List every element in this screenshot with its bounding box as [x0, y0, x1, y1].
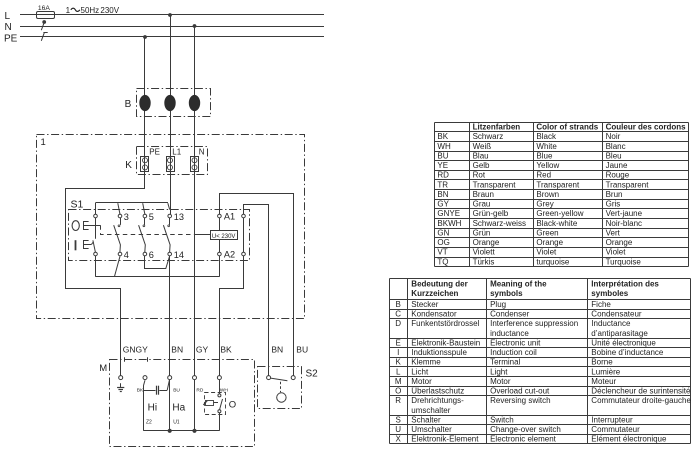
motor terminal (WH / overload)	[217, 376, 221, 380]
svg-text:Inductance: Inductance	[591, 319, 631, 328]
contact 13/14 moving blade	[163, 225, 170, 252]
svg-text:Light: Light	[490, 367, 508, 376]
S1 contact terminal 6 (pin 6)	[143, 252, 147, 256]
svg-text:Plug: Plug	[490, 300, 506, 309]
svg-text:PE: PE	[4, 34, 18, 45]
switch S1 dash-dot box	[69, 210, 250, 261]
wire A1 to relay coil	[219, 218, 221, 231]
svg-text:Drehrichtungs-: Drehrichtungs-	[411, 396, 464, 405]
svg-text:Schwarz: Schwarz	[473, 132, 504, 141]
svg-text:K: K	[396, 358, 402, 367]
svg-text:Grey: Grey	[536, 200, 553, 209]
svg-text:BU: BU	[173, 387, 180, 393]
svg-text:OG: OG	[437, 238, 449, 247]
svg-text:Commutateur: Commutateur	[591, 425, 640, 434]
svg-text:Green-yellow: Green-yellow	[536, 209, 583, 218]
svg-text:TR: TR	[437, 180, 448, 189]
actuator position O (off)	[72, 221, 79, 231]
svg-text:Change-over switch: Change-over switch	[490, 425, 561, 434]
svg-text:Violet: Violet	[606, 248, 627, 257]
svg-text:L: L	[396, 367, 401, 376]
S2 lamp	[277, 393, 286, 402]
svg-text:Condenser: Condenser	[490, 310, 529, 319]
svg-text:Meaning of the: Meaning of the	[490, 280, 547, 289]
contact 3/4 moving blade	[114, 225, 121, 252]
actuator key symbol lower (E)	[84, 241, 89, 249]
svg-text:BU: BU	[437, 151, 448, 160]
svg-text:Color of strands: Color of strands	[536, 123, 598, 132]
motor terminal (capacitor branch)	[143, 376, 147, 380]
S1 contact terminal 5 (pin 5)	[143, 214, 147, 218]
motor terminal (BU / U1)	[168, 376, 172, 380]
svg-text:Fiche: Fiche	[591, 300, 611, 309]
svg-text:Motor: Motor	[411, 377, 432, 386]
svg-text:Bobine d’inductance: Bobine d’inductance	[591, 348, 664, 357]
plug B pin 3 (N)	[189, 95, 200, 111]
junction dot U1/bus	[168, 429, 172, 433]
table 1 header row	[473, 123, 687, 132]
svg-text:Blanc: Blanc	[606, 142, 626, 151]
switch S2 dash-dot box	[258, 367, 302, 409]
svg-text:E: E	[396, 338, 401, 347]
S1 main contact lower terminal	[94, 252, 98, 256]
S2 linkage (dashed)	[280, 382, 282, 393]
svg-text:4: 4	[124, 250, 129, 260]
svg-text:Stecker: Stecker	[411, 300, 438, 309]
svg-text:Gris: Gris	[606, 200, 621, 209]
svg-text:Transparent: Transparent	[536, 180, 580, 189]
fuse F1 16A on line L	[37, 12, 55, 19]
svg-text:U1: U1	[173, 420, 180, 426]
overload contact upper terminal	[218, 394, 221, 397]
svg-text:1: 1	[66, 6, 71, 15]
svg-text:Electronic element: Electronic element	[490, 435, 557, 444]
wire loop A1 up-over-down to S2 (BU)	[220, 194, 294, 376]
wire jumper across contact tops (from L1)	[96, 202, 169, 204]
svg-text:Motor: Motor	[490, 377, 511, 386]
svg-text:Electronic unit: Electronic unit	[490, 338, 541, 347]
contact 5/6 fixed stub and pivot	[144, 218, 146, 225]
svg-text:O: O	[229, 399, 236, 410]
svg-text:Couleur des cordons: Couleur des cordons	[606, 123, 687, 132]
svg-text:Induktionsspule: Induktionsspule	[411, 348, 467, 357]
svg-text:A1: A1	[224, 212, 235, 222]
svg-text:Elektronik-Element: Elektronik-Element	[411, 435, 479, 444]
svg-text:Interference suppression: Interference suppression	[490, 319, 578, 328]
terminal K:L1	[167, 157, 175, 172]
svg-text:Litzenfarben: Litzenfarben	[473, 123, 521, 132]
svg-text:BK: BK	[437, 132, 448, 141]
svg-text:U< 230V: U< 230V	[212, 234, 236, 240]
table: wire colour legend (Litzenfarben)	[435, 123, 689, 267]
relay terminal A1	[218, 214, 222, 218]
svg-text:Klemme: Klemme	[411, 358, 441, 367]
overload contact blade	[220, 399, 223, 410]
svg-text:Orange: Orange	[606, 238, 633, 247]
wire L drop to plug and terminal K	[170, 15, 172, 214]
svg-text:U: U	[395, 425, 401, 434]
actuator key symbol upper (E)	[84, 222, 89, 230]
capacitor C1 (motor start capacitor)	[144, 390, 156, 392]
net L (supply line L)	[20, 14, 324, 16]
svg-text:RD: RD	[437, 171, 449, 180]
svg-text:M: M	[99, 363, 107, 374]
ground symbol	[120, 383, 122, 387]
svg-text:BK: BK	[137, 387, 144, 393]
svg-text:RD: RD	[196, 387, 203, 393]
S1 contact terminal 4 (pin 4)	[118, 252, 122, 256]
undervoltage relay coil U< 230V	[211, 231, 238, 240]
svg-text:BN: BN	[271, 345, 283, 355]
svg-text:Blue: Blue	[536, 151, 553, 160]
svg-text:Green: Green	[536, 228, 558, 237]
svg-text:14: 14	[174, 250, 184, 260]
svg-text:230V: 230V	[100, 6, 119, 15]
S1 auxiliary contact upper terminal	[242, 214, 246, 218]
wire from auxiliary contact to BK drop (jog)	[220, 256, 244, 376]
wire blade from terminal to capacitor	[144, 380, 146, 385]
svg-text:BN: BN	[437, 190, 448, 199]
svg-text:Commutateur droite-gauche: Commutateur droite-gauche	[591, 396, 691, 405]
overload contact lower terminal	[218, 410, 221, 413]
svg-text:Turquoise: Turquoise	[606, 257, 642, 266]
svg-text:Vert: Vert	[606, 228, 621, 237]
svg-text:Grün-gelb: Grün-gelb	[473, 209, 509, 218]
contact 13/14 fixed stub and pivot	[169, 218, 171, 225]
svg-text:Brun: Brun	[606, 190, 623, 199]
wire A2 drop to bus	[219, 256, 221, 277]
svg-text:Condensateur: Condensateur	[591, 310, 642, 319]
table 1 data rows	[437, 132, 649, 266]
svg-text:VT: VT	[437, 248, 447, 257]
S2 switch blade	[271, 378, 288, 381]
svg-text:Vert-jaune: Vert-jaune	[606, 209, 643, 218]
junction dot RD/bus	[192, 429, 196, 433]
wire from main contact lower terminal down to bus	[95, 256, 97, 277]
svg-text:Borne: Borne	[591, 358, 613, 367]
svg-text:Overload cut-out: Overload cut-out	[490, 387, 550, 396]
svg-text:symboles: symboles	[591, 289, 628, 298]
svg-text:Elektronik-Baustein: Elektronik-Baustein	[411, 338, 480, 347]
svg-text:C: C	[395, 310, 401, 319]
relay terminal A2	[218, 252, 222, 256]
table 2 data rows	[395, 300, 692, 444]
svg-text:Noir: Noir	[606, 132, 621, 141]
svg-text:50Hz: 50Hz	[81, 6, 100, 15]
S1 main contact blade	[93, 240, 96, 252]
wire relay coil to A2	[219, 240, 221, 252]
svg-text:Rot: Rot	[473, 171, 486, 180]
svg-text:turquoise: turquoise	[536, 257, 569, 266]
svg-text:Noir-blanc: Noir-blanc	[606, 219, 642, 228]
S1 contact terminal 3 (pin 3)	[118, 214, 122, 218]
wire U1 winding drop	[169, 380, 171, 431]
wire RD winding drop	[194, 380, 196, 431]
S2 terminal BU	[291, 376, 295, 380]
svg-text:Grau: Grau	[473, 200, 491, 209]
wire tap diagonal into contact 13	[168, 203, 170, 209]
junction dot below fuse	[42, 20, 46, 24]
svg-text:R: R	[395, 396, 401, 405]
S1 contact terminal 13 (pin 13)	[168, 214, 172, 218]
wire bus connecting contact 4 and A2	[96, 276, 220, 278]
S1 contact terminal 14 (pin 14)	[168, 252, 172, 256]
contact 3/4 fixed stub and pivot	[120, 218, 122, 225]
svg-text:M: M	[395, 377, 402, 386]
svg-text:Kurzzeichen: Kurzzeichen	[411, 289, 458, 298]
plug B pin 1 (PE)	[139, 95, 150, 111]
svg-text:Schwarz-weiss: Schwarz-weiss	[473, 219, 526, 228]
svg-text:GNGY: GNGY	[123, 345, 148, 355]
svg-text:Braun: Braun	[473, 190, 494, 199]
svg-text:3: 3	[124, 212, 129, 222]
svg-text:umschalter: umschalter	[411, 406, 450, 415]
contact 5/6 moving blade	[139, 225, 146, 252]
motor M dash-dot box	[110, 360, 255, 447]
svg-text:B: B	[396, 300, 401, 309]
svg-text:Licht: Licht	[411, 367, 429, 376]
node: tap of L line	[168, 13, 172, 17]
svg-text:Elément électronique: Elément électronique	[591, 435, 667, 444]
wire jumper contact 6 to contact 14 (U-shape)	[145, 256, 170, 269]
svg-text:Switch: Switch	[490, 415, 514, 424]
svg-text:Black: Black	[536, 132, 557, 141]
S2 terminal BN	[267, 376, 271, 380]
net PE (supply line PE)	[20, 36, 324, 38]
svg-text:Schalter: Schalter	[411, 415, 441, 424]
svg-text:d’antiparasitage: d’antiparasitage	[591, 329, 648, 338]
actuator position I (on)	[75, 240, 77, 250]
svg-text:PE: PE	[149, 148, 160, 157]
svg-text:BKWH: BKWH	[437, 219, 461, 228]
terminal K:N	[191, 157, 199, 172]
svg-text:Orange: Orange	[536, 238, 563, 247]
svg-text:Rouge: Rouge	[606, 171, 630, 180]
enclosure box 1 (dash-dot)	[37, 135, 305, 319]
svg-text:Jaune: Jaune	[606, 161, 628, 170]
svg-text:L: L	[5, 11, 11, 22]
svg-text:GNYE: GNYE	[437, 209, 460, 218]
svg-text:BK: BK	[220, 345, 232, 355]
svg-text:Transparent: Transparent	[473, 180, 517, 189]
svg-text:N: N	[5, 22, 12, 33]
overload cut-out O dashed box	[205, 393, 226, 415]
wire capacitor branch down (Z2)	[143, 386, 145, 431]
svg-text:Weiß: Weiß	[473, 142, 492, 151]
svg-text:YE: YE	[437, 161, 448, 170]
svg-text:S: S	[396, 415, 401, 424]
svg-text:L1: L1	[172, 148, 181, 157]
svg-text:6: 6	[149, 250, 154, 260]
svg-text:Gelb: Gelb	[473, 161, 490, 170]
mechanical linkage (dashed) from actuator to contacts and relay	[101, 225, 195, 234]
svg-text:I: I	[397, 348, 399, 357]
svg-text:O: O	[395, 387, 401, 396]
svg-text:Brown: Brown	[536, 190, 559, 199]
svg-text:S1: S1	[71, 199, 84, 211]
svg-text:BU: BU	[296, 345, 308, 355]
svg-text:A2: A2	[224, 250, 235, 260]
svg-text:N: N	[199, 148, 205, 157]
S1 auxiliary contact lower terminal	[242, 252, 246, 256]
motor terminal (RD)	[193, 376, 197, 380]
svg-text:Interrupteur: Interrupteur	[591, 415, 633, 424]
conductor mark on PE (diagonal stroke with tick)	[41, 32, 44, 40]
wire tap diagonal into contact 3	[118, 203, 120, 214]
S1 main contact fixed stub	[95, 218, 97, 239]
svg-text:Violett: Violett	[473, 248, 496, 257]
svg-text:GY: GY	[437, 200, 449, 209]
svg-text:K: K	[125, 160, 132, 171]
node: tap of PE line	[143, 35, 147, 39]
net N (supply line N)	[20, 26, 324, 28]
svg-text:GN: GN	[437, 228, 449, 237]
svg-text:Terminal: Terminal	[490, 358, 520, 367]
svg-text:Funkentstördrossel: Funkentstördrossel	[411, 319, 479, 328]
wire N drop, runs to motor terminal RD	[194, 26, 196, 376]
terminal block K dashed box	[137, 147, 208, 175]
svg-text:Déclencheur de surintensité: Déclencheur de surintensité	[591, 387, 691, 396]
svg-text:Bedeutung der: Bedeutung der	[411, 280, 467, 289]
overload heater element	[206, 401, 214, 406]
svg-text:Lumière: Lumière	[591, 367, 620, 376]
svg-text:Moteur: Moteur	[591, 377, 616, 386]
plug B pin 2 (L)	[164, 95, 175, 111]
svg-text:Blau: Blau	[473, 151, 489, 160]
svg-text:Grün: Grün	[473, 228, 491, 237]
svg-text:Ha: Ha	[172, 402, 185, 413]
plug B dashed box	[137, 89, 211, 117]
wire PE drop to plug and terminal K	[144, 37, 146, 172]
wire loop auxiliary contact to S2 (BN)	[244, 205, 269, 376]
wire tap diagonal into contact 5	[143, 203, 145, 214]
svg-text:5: 5	[149, 212, 154, 222]
svg-text:WH: WH	[437, 142, 451, 151]
svg-text:Kondensator: Kondensator	[411, 310, 457, 319]
svg-text:1: 1	[41, 137, 46, 148]
svg-text:13: 13	[174, 212, 184, 222]
svg-text:B: B	[125, 99, 132, 110]
conductor mark on N (diagonal stroke)	[41, 24, 44, 31]
svg-text:Hi: Hi	[148, 402, 157, 413]
svg-text:Reversing switch: Reversing switch	[490, 396, 550, 405]
svg-text:Induction coil: Induction coil	[490, 348, 537, 357]
svg-text:Interprétation des: Interprétation des	[591, 280, 659, 289]
wire overload to motor bus	[219, 413, 221, 431]
svg-text:S2: S2	[306, 369, 319, 380]
svg-text:BN: BN	[171, 345, 183, 355]
svg-text:Z2: Z2	[146, 420, 152, 426]
table: symbol legend (Bedeutung der Kurzzeichen)	[390, 279, 691, 444]
svg-text:White: White	[536, 142, 557, 151]
svg-text:Bleu: Bleu	[606, 151, 622, 160]
wire blade 4 to bus (diagonal)	[114, 256, 120, 277]
svg-text:Violet: Violet	[536, 248, 557, 257]
svg-text:GY: GY	[196, 345, 209, 355]
S1 main contact upper terminal	[94, 214, 98, 218]
svg-text:TQ: TQ	[437, 257, 448, 266]
svg-text:Umschalter: Umschalter	[411, 425, 452, 434]
svg-text:D: D	[395, 319, 401, 328]
wire terminal to overload cut-out	[219, 380, 221, 394]
S1 auxiliary contact path	[243, 218, 245, 252]
terminal K:PE	[141, 157, 149, 172]
svg-text:X: X	[396, 435, 402, 444]
svg-text:Yellow: Yellow	[536, 161, 559, 170]
svg-text:16A: 16A	[38, 5, 50, 12]
wire BN from contact 14 down to motor	[169, 256, 171, 376]
svg-text:Türkis: Türkis	[473, 257, 495, 266]
motor internal bus wire	[143, 430, 219, 432]
boundary tick marks on motor box edge	[124, 357, 126, 361]
table 2 header row	[411, 280, 659, 299]
svg-text:Überlastschutz: Überlastschutz	[411, 387, 464, 396]
svg-text:Transparent: Transparent	[606, 180, 650, 189]
svg-text:Red: Red	[536, 171, 551, 180]
svg-text:Black-white: Black-white	[536, 219, 577, 228]
svg-text:Unité électronique: Unité électronique	[591, 338, 656, 347]
motor terminal (GNGY)	[119, 376, 123, 380]
wire PE from K down-left-down to motor (GNGY)	[66, 172, 145, 376]
svg-text:inductance: inductance	[490, 329, 529, 338]
svg-text:Orange: Orange	[473, 238, 500, 247]
svg-text:symbols: symbols	[490, 289, 523, 298]
node: tap of N line	[193, 24, 197, 28]
